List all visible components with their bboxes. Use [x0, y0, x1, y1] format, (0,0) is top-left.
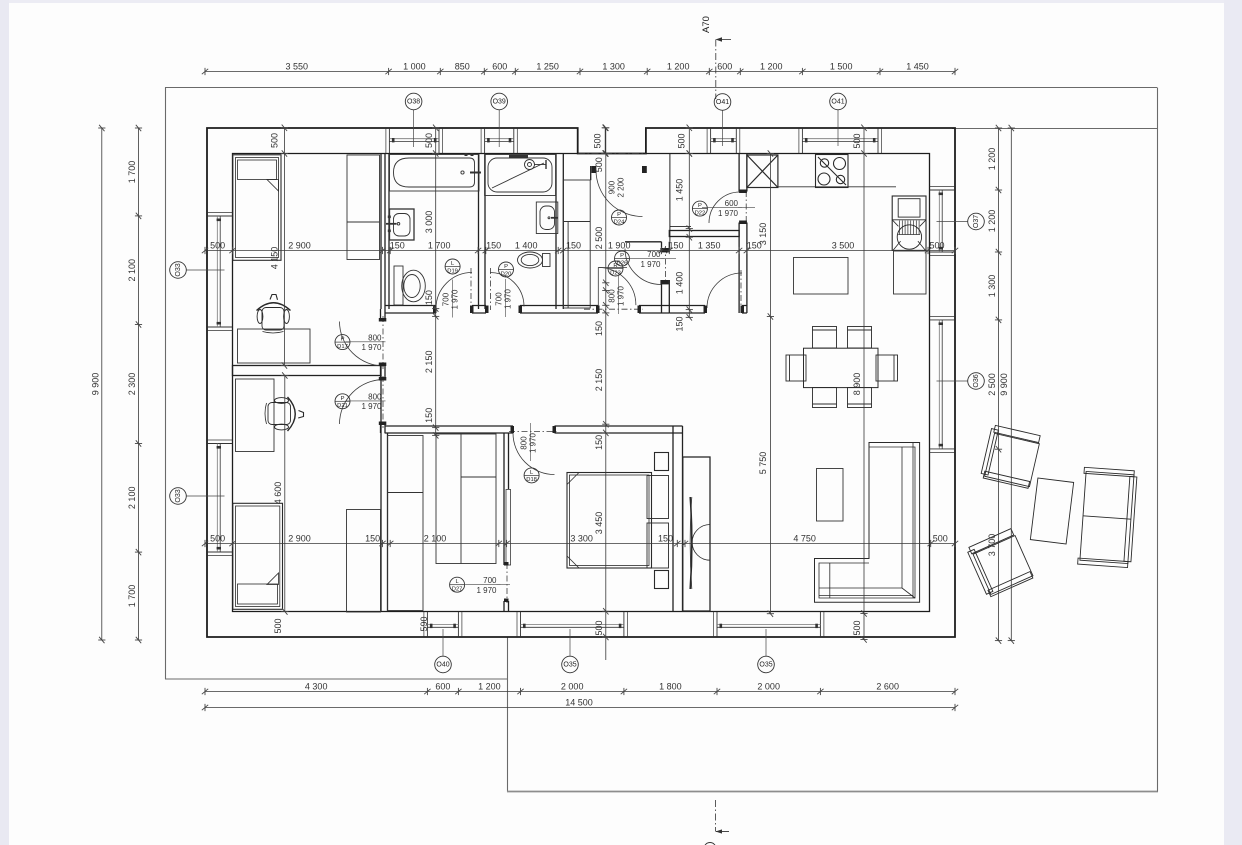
sheet B bottom border — [507, 791, 1158, 793]
door circle D18 — [524, 468, 539, 483]
dim chain right overall — [1010, 128, 1012, 641]
sheet A bottom border — [165, 678, 508, 680]
svg-text:150: 150 — [668, 240, 683, 250]
window O36 — [930, 316, 955, 452]
svg-text:D22: D22 — [695, 210, 706, 216]
label circle O40 — [435, 656, 452, 673]
top-right wall extension line — [952, 128, 1158, 130]
svg-text:500: 500 — [424, 133, 434, 148]
svg-text:800: 800 — [368, 392, 382, 401]
wardrobe A hall — [388, 436, 424, 611]
svg-text:9 900: 9 900 — [999, 373, 1009, 396]
door size D18 — [520, 432, 538, 453]
TV unit — [683, 457, 710, 611]
svg-text:O38: O38 — [407, 99, 420, 106]
svg-text:700: 700 — [483, 576, 497, 585]
dining table — [804, 348, 879, 387]
window O37 — [930, 187, 955, 256]
door D17a dashdot — [382, 316, 384, 369]
svg-text:O41: O41 — [831, 99, 844, 106]
svg-text:1 450: 1 450 — [675, 179, 685, 202]
svg-text:1 400: 1 400 — [675, 272, 685, 295]
dim chain x864 — [863, 128, 865, 640]
dim chain x284 bottom — [284, 376, 286, 612]
svg-text:3 550: 3 550 — [286, 61, 309, 71]
bed top-left — [233, 155, 281, 260]
svg-text:8 900: 8 900 — [852, 373, 862, 396]
svg-text:2 200: 2 200 — [617, 177, 626, 198]
door D22 arc — [709, 192, 740, 223]
svg-text:800: 800 — [368, 333, 382, 342]
svg-text:R: R — [613, 263, 617, 269]
window O40 — [424, 612, 462, 637]
door D23 arc — [598, 268, 636, 306]
window O33b — [207, 440, 232, 556]
wardrobe B bedroom — [436, 434, 496, 564]
door D17a arc — [340, 322, 385, 367]
label circle O35 — [758, 656, 775, 673]
svg-text:1 450: 1 450 — [906, 61, 929, 71]
svg-text:1 200: 1 200 — [760, 61, 783, 71]
svg-text:500: 500 — [852, 133, 862, 148]
bedroom top wall with D18 opening — [385, 426, 513, 433]
svg-text:3 000: 3 000 — [424, 211, 434, 234]
svg-text:500: 500 — [273, 618, 283, 633]
armchair tilted 1 — [980, 425, 1041, 489]
svg-text:1 970: 1 970 — [529, 432, 538, 453]
porch jamb connector — [590, 166, 592, 180]
door circle D27 — [450, 577, 465, 592]
svg-text:3 300: 3 300 — [570, 533, 593, 543]
sofa L — [815, 443, 920, 603]
svg-text:9 900: 9 900 — [90, 373, 100, 396]
door size D23 — [608, 285, 626, 306]
svg-text:D20: D20 — [501, 271, 512, 277]
svg-text:O33: O33 — [175, 489, 182, 502]
door D17b arc — [340, 380, 385, 425]
svg-text:150: 150 — [424, 290, 434, 305]
svg-text:2 100: 2 100 — [127, 487, 137, 510]
door circle D19 — [445, 259, 460, 274]
svg-text:1 970: 1 970 — [361, 402, 382, 411]
svg-text:O35: O35 — [563, 662, 576, 669]
svg-text:1 800: 1 800 — [659, 681, 682, 691]
door D27 leaf — [506, 490, 511, 566]
svg-text:2 150: 2 150 — [424, 351, 434, 374]
door circle D17 — [335, 335, 350, 350]
window O35a — [517, 612, 627, 637]
dim chain interior lower — [205, 543, 955, 545]
svg-text:850: 850 — [455, 61, 470, 71]
right screen strip — [1224, 0, 1242, 845]
door storage arc — [707, 273, 742, 308]
svg-text:1 970: 1 970 — [476, 586, 497, 595]
top screen strip — [9, 0, 1224, 3]
chair bottom-left room — [265, 397, 304, 431]
svg-text:150: 150 — [675, 316, 685, 331]
bedroom right wall — [673, 426, 683, 612]
dim chain bottom overall — [205, 707, 955, 709]
svg-text:1 200: 1 200 — [478, 681, 501, 691]
svg-text:1 500: 1 500 — [830, 61, 853, 71]
svg-text:590: 590 — [419, 616, 429, 631]
bed bedroom — [567, 453, 669, 589]
svg-text:1 970: 1 970 — [361, 343, 382, 352]
svg-text:O37: O37 — [973, 215, 980, 228]
entry block / kitchen wall with D22 opening — [739, 154, 747, 314]
svg-text:2 900: 2 900 — [288, 240, 311, 250]
svg-text:150: 150 — [594, 435, 604, 450]
bottom-left room right wall — [381, 376, 388, 612]
svg-text:5 750: 5 750 — [758, 452, 768, 475]
door size D17b — [361, 392, 382, 411]
window O38 — [386, 128, 443, 153]
bed bottom-left — [233, 503, 283, 609]
door D24 threshold dashdot — [578, 153, 646, 155]
dining chairs — [786, 327, 898, 408]
svg-text:D27: D27 — [452, 587, 463, 593]
svg-text:1 250: 1 250 — [536, 61, 559, 71]
exterior wall outer outline with porch notch — [207, 128, 955, 637]
svg-text:1 400: 1 400 — [515, 240, 538, 250]
svg-text:1 700: 1 700 — [127, 161, 137, 184]
vestibule cabinet — [563, 180, 590, 308]
svg-text:500: 500 — [929, 240, 944, 250]
door D20 arc — [490, 273, 524, 307]
svg-text:500: 500 — [210, 533, 225, 543]
svg-text:O36: O36 — [973, 374, 980, 387]
svg-text:4 300: 4 300 — [305, 681, 328, 691]
label circle O35 — [562, 656, 579, 673]
label circle O33 — [170, 488, 187, 505]
svg-text:3 500: 3 500 — [832, 240, 855, 250]
svg-text:1 300: 1 300 — [987, 275, 997, 298]
dim chain bottom — [205, 691, 955, 693]
section mark A70 bottom — [704, 800, 729, 845]
door D17b dashdot — [382, 376, 384, 428]
svg-text:2 000: 2 000 — [757, 681, 780, 691]
dim chain x435 — [435, 128, 437, 436]
porch dim right — [688, 128, 690, 154]
kitchen counter front edge — [778, 186, 896, 188]
washbasin bath1 — [386, 209, 414, 240]
svg-text:D18: D18 — [526, 477, 537, 483]
desk top-left room — [238, 329, 311, 363]
door D23 leaf — [597, 268, 599, 306]
door circle D22 — [692, 201, 707, 216]
counter below fridge — [894, 251, 927, 294]
svg-text:1 970: 1 970 — [617, 285, 626, 306]
svg-text:2 500: 2 500 — [987, 373, 997, 396]
label circle O36 — [968, 373, 985, 390]
svg-text:500: 500 — [270, 133, 280, 148]
svg-text:2 100: 2 100 — [127, 259, 137, 282]
table tilted — [1030, 478, 1073, 544]
dim chain x605 — [605, 128, 607, 660]
svg-text:600: 600 — [725, 199, 739, 208]
svg-text:D19: D19 — [447, 268, 458, 274]
svg-text:150: 150 — [594, 321, 604, 336]
svg-text:O35: O35 — [759, 662, 772, 669]
svg-text:2 900: 2 900 — [288, 533, 311, 543]
svg-text:500: 500 — [594, 157, 604, 172]
svg-text:D21: D21 — [337, 403, 348, 409]
door size D17a — [361, 333, 382, 352]
svg-text:1 970: 1 970 — [718, 209, 739, 218]
armchair tilted 2 — [966, 528, 1034, 598]
svg-text:1 350: 1 350 — [698, 240, 721, 250]
vestibule/hall upper separator line — [669, 154, 671, 242]
stove — [816, 155, 849, 188]
dim chain x689 — [688, 154, 690, 318]
entry hall / storage wall — [669, 231, 739, 237]
svg-text:14 500: 14 500 — [565, 697, 593, 707]
door D19 arc — [436, 273, 472, 309]
label circle O39 — [491, 93, 508, 110]
svg-text:O41: O41 — [716, 99, 729, 106]
label circle O41 — [830, 93, 847, 110]
vestibule / entry hall wall — [662, 242, 670, 253]
sofa tilted right — [1078, 467, 1138, 567]
svg-text:P: P — [341, 396, 345, 402]
label circle O37 — [968, 213, 985, 230]
label circle O41 — [714, 94, 731, 111]
bedroom left wall with D27 opening — [504, 433, 509, 565]
svg-text:2 000: 2 000 — [561, 681, 584, 691]
svg-text:150: 150 — [486, 240, 501, 250]
hall top wall under baths: segments with door openings — [385, 306, 436, 314]
door circle D21 — [335, 394, 350, 409]
label circle O33 — [170, 262, 187, 279]
partition wall between left rooms — [233, 366, 382, 376]
svg-text:4 750: 4 750 — [793, 533, 816, 543]
door size D24 — [608, 177, 626, 198]
svg-text:500: 500 — [210, 240, 225, 250]
svg-text:800: 800 — [608, 289, 617, 303]
sheet B left border — [507, 638, 509, 792]
svg-text:3 700: 3 700 — [987, 534, 997, 557]
desk bottom-left room — [236, 379, 275, 452]
bath2 / vestibule wall — [556, 154, 563, 310]
svg-text:D17: D17 — [337, 344, 348, 350]
svg-text:150: 150 — [424, 408, 434, 423]
left screen strip — [0, 0, 9, 845]
svg-text:P: P — [698, 203, 702, 209]
window O41b — [799, 128, 882, 153]
shaft X box — [747, 155, 778, 188]
svg-text:1 900: 1 900 — [608, 240, 631, 250]
dim chain x284 — [283, 128, 285, 366]
dim chain x770 — [769, 154, 771, 614]
sheet A left border — [165, 88, 167, 680]
kitchen table — [794, 258, 849, 295]
door D18 arc — [513, 433, 555, 475]
svg-text:2 600: 2 600 — [876, 681, 899, 691]
door circle D20 — [499, 262, 514, 277]
door size storage — [640, 250, 661, 269]
window O39 — [481, 128, 517, 153]
label circle O38 — [405, 93, 422, 110]
door D20 dashdot — [490, 268, 492, 310]
porch dim left — [604, 128, 606, 154]
svg-text:D24: D24 — [614, 219, 625, 225]
door D22 dashdot — [745, 191, 747, 224]
svg-text:1 970: 1 970 — [640, 260, 661, 269]
svg-text:150: 150 — [566, 240, 581, 250]
svg-text:600: 600 — [492, 61, 507, 71]
dim chain left — [138, 128, 140, 640]
svg-text:O39: O39 — [493, 99, 506, 106]
dim chain right — [998, 128, 1000, 641]
svg-text:O33: O33 — [175, 263, 182, 276]
svg-text:4 600: 4 600 — [273, 482, 283, 505]
svg-text:P: P — [341, 337, 345, 343]
wall stub above D26 — [625, 241, 662, 243]
window O35b — [714, 612, 824, 637]
sheet B right border — [1157, 88, 1159, 792]
svg-text:150: 150 — [365, 533, 380, 543]
corridor wall left rooms / hall — [381, 309, 386, 321]
exterior wall inner outline — [233, 154, 930, 612]
bathtub — [390, 153, 482, 191]
svg-text:2 150: 2 150 — [594, 369, 604, 392]
door D19 dashdot — [470, 268, 472, 310]
svg-text:1 000: 1 000 — [403, 61, 426, 71]
svg-text:O40: O40 — [436, 662, 449, 669]
door circle D24 — [612, 210, 627, 225]
bath1 / bath2 wall — [479, 154, 486, 310]
svg-text:700: 700 — [442, 292, 451, 306]
svg-text:800: 800 — [520, 436, 529, 450]
door D23 leader — [598, 267, 627, 269]
door D26 arc — [625, 249, 661, 285]
svg-text:150: 150 — [658, 533, 673, 543]
door D26 dashdot — [665, 246, 667, 284]
svg-text:900: 900 — [608, 180, 617, 194]
section mark A70 top — [716, 37, 732, 99]
window O41a — [707, 128, 740, 153]
shower tray — [485, 155, 556, 196]
door D23 dashdot — [584, 308, 643, 310]
door size D22 — [718, 199, 739, 218]
svg-text:600: 600 — [717, 61, 732, 71]
door circle D26 — [615, 251, 630, 266]
door D18 dashdot — [509, 431, 558, 433]
svg-text:1 300: 1 300 — [602, 61, 625, 71]
svg-text:500: 500 — [852, 620, 862, 635]
svg-text:2 300: 2 300 — [127, 373, 137, 396]
washbasin bath2 — [536, 202, 558, 234]
wardrobe top-left room — [347, 155, 380, 260]
svg-text:700: 700 — [647, 250, 661, 259]
svg-text:3 150: 3 150 — [758, 223, 768, 246]
door D24 entry arc — [596, 170, 643, 217]
svg-text:1 200: 1 200 — [667, 61, 690, 71]
svg-text:150: 150 — [390, 240, 405, 250]
chair top-left room — [257, 295, 291, 334]
svg-text:2 500: 2 500 — [594, 227, 604, 250]
svg-text:P: P — [617, 212, 621, 218]
door D27 dashdot — [506, 563, 508, 603]
washing machine — [892, 196, 926, 250]
door size D20 — [495, 288, 513, 309]
svg-text:1 700: 1 700 — [127, 585, 137, 608]
wardrobe bottom-center — [347, 510, 381, 613]
svg-text:1 970: 1 970 — [504, 288, 513, 309]
svg-text:A70: A70 — [701, 16, 712, 33]
svg-text:700: 700 — [495, 292, 504, 306]
toilet bath2 — [518, 252, 551, 268]
svg-text:1 200: 1 200 — [987, 210, 997, 233]
svg-text:1 200: 1 200 — [987, 148, 997, 171]
svg-text:P: P — [504, 264, 508, 270]
svg-text:4 150: 4 150 — [270, 247, 280, 270]
wall bath1 / top-left room — [381, 154, 389, 310]
svg-text:500: 500 — [933, 533, 948, 543]
door jamb marks — [379, 166, 747, 602]
door circle D23 — [608, 261, 623, 276]
sheet A top border — [165, 87, 1157, 89]
door size D19 — [442, 289, 460, 310]
dim chain top — [205, 71, 955, 73]
toilet bath1 — [394, 266, 425, 305]
svg-text:500: 500 — [677, 133, 687, 148]
window O33a — [207, 213, 232, 331]
bath1 left wall lower part — [381, 253, 385, 309]
svg-text:D23: D23 — [610, 270, 621, 276]
side table living — [817, 469, 844, 522]
svg-text:600: 600 — [435, 681, 450, 691]
svg-text:P: P — [620, 253, 624, 259]
dim chain left overall — [101, 128, 103, 640]
svg-text:500: 500 — [593, 133, 603, 148]
door size D27 — [476, 576, 497, 595]
svg-text:1 970: 1 970 — [451, 289, 460, 310]
door storage dashdot — [740, 270, 742, 310]
svg-text:500: 500 — [594, 620, 604, 635]
svg-text:3 450: 3 450 — [594, 512, 604, 535]
dim chain interior upper — [205, 250, 955, 252]
svg-text:2 100: 2 100 — [424, 533, 447, 543]
svg-text:1 700: 1 700 — [428, 240, 451, 250]
